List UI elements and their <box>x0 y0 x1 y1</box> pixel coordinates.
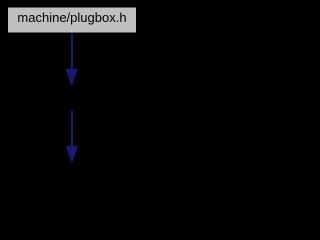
wire edge1 shaft (machine/plugbox.h to hidden node 2) <box>71 34 73 70</box>
wire edge2 shaft (hidden node 2 to hidden node 3) <box>71 111 73 147</box>
node machine/plugbox.h (root include file, grey filled box) <box>8 8 136 33</box>
arrowhead edge1 <box>66 69 78 87</box>
arrowhead edge2 <box>66 146 78 164</box>
node label machine/plugbox.h <box>8 8 136 33</box>
